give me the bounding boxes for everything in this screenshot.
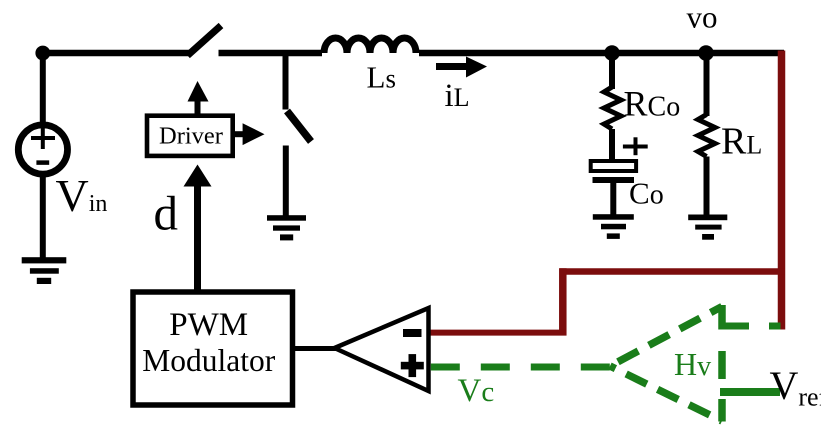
ground G3 below Co xyxy=(593,214,634,239)
arrow iL current xyxy=(436,57,487,78)
source Vin plus sign xyxy=(31,126,55,149)
svg-text:Modulator: Modulator xyxy=(142,343,275,378)
wire feedback red horizontal upper xyxy=(560,268,786,275)
wire top rail middle segment xyxy=(219,50,323,57)
ground G1 below Vin xyxy=(22,257,67,284)
wire top rail right segment xyxy=(419,50,784,57)
comparator plus input sign xyxy=(401,354,424,377)
svg-text:iL: iL xyxy=(445,78,470,114)
svg-text:Vin: Vin xyxy=(56,170,108,221)
wire top rail left segment xyxy=(43,50,189,57)
amplifier Hv dashed triangle right edge xyxy=(718,305,726,422)
arrow driver output right xyxy=(235,123,265,145)
wire Vc dashed green xyxy=(431,364,611,371)
wire feedback red to comparator minus xyxy=(429,330,567,336)
wire Co to ground xyxy=(610,183,616,216)
svg-text:Vc: Vc xyxy=(458,373,495,409)
inductor Ls xyxy=(324,38,416,53)
ground G2 below switch S2 xyxy=(267,215,306,240)
source Vin circle xyxy=(18,125,67,174)
node junction RCo branch xyxy=(604,45,620,61)
wire RCo to cap xyxy=(609,129,615,161)
svg-text:RL: RL xyxy=(721,121,762,163)
amplifier Hv dashed triangle top edge xyxy=(610,307,722,367)
svg-text:d: d xyxy=(154,186,179,241)
source Vin wire top xyxy=(40,53,46,124)
capacitor Co bottom plate xyxy=(593,177,635,183)
arrow d input to driver xyxy=(184,165,212,293)
source Vin wire bottom xyxy=(40,174,46,258)
node junction vo xyxy=(698,45,714,61)
wire RCo branch top xyxy=(609,53,615,89)
svg-text:Co: Co xyxy=(629,176,664,211)
driver box U2 xyxy=(147,116,233,156)
resistor RL zigzag xyxy=(698,115,715,157)
svg-text:vo: vo xyxy=(687,0,718,35)
comparator minus input sign xyxy=(403,329,422,337)
switch S2 blade xyxy=(287,111,311,142)
svg-text:Hv: Hv xyxy=(674,346,711,382)
arrow driver-to-switch up xyxy=(188,81,209,116)
svg-text:Driver: Driver xyxy=(159,123,223,150)
wire Hv input dashed from red xyxy=(722,323,781,330)
svg-text:Vref: Vref xyxy=(770,363,821,412)
switch S2 wire upper xyxy=(283,53,289,110)
wire RL branch top xyxy=(704,53,710,116)
source Vin minus sign xyxy=(36,160,49,165)
wire feedback red vertical middle xyxy=(559,268,567,335)
wire feedback red vertical right xyxy=(778,51,786,330)
svg-text:RCo: RCo xyxy=(624,84,681,124)
switch S1 blade xyxy=(188,26,222,56)
resistor RCo zigzag xyxy=(604,87,621,129)
PWM modulator box U3 xyxy=(133,292,293,405)
wire RL to ground xyxy=(704,157,710,217)
wire PWM output to comparator xyxy=(293,346,337,351)
node top-left junction dot xyxy=(35,46,50,61)
comparator U1 triangle xyxy=(335,308,429,391)
svg-text:PWM: PWM xyxy=(169,307,248,343)
capacitor Co top plate xyxy=(591,161,636,171)
amplifier Hv dashed triangle bottom edge xyxy=(610,366,722,421)
capacitor Co plus sign xyxy=(623,137,648,155)
ground G4 below RL xyxy=(688,215,727,240)
switch S2 wire lower xyxy=(283,146,289,217)
wire Vref solid green xyxy=(720,388,780,396)
svg-text:Ls: Ls xyxy=(367,60,396,95)
